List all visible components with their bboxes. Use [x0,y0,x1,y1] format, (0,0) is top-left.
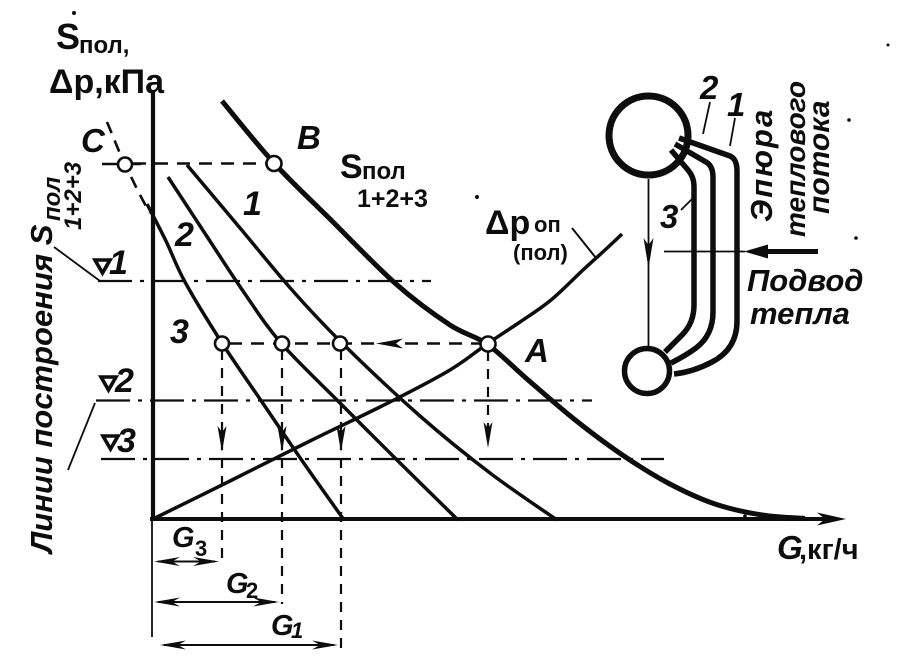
vertical dashed line below point 3 [221,350,223,564]
svg-text:1: 1 [727,86,745,123]
point on curve 2 [275,337,289,351]
nabla mark 2 [101,377,116,390]
dashed line C to B [133,162,267,165]
svg-text:Эпюра: Эпюра [744,108,779,222]
svg-text:,кг/ч: ,кг/ч [799,534,859,566]
leader for dp label [572,228,596,258]
leader from rotated label to line 1 [54,247,100,281]
svg-text:1: 1 [291,618,303,643]
dashed curve through C (extension of curve 3) [107,122,150,213]
thin heat line [664,251,745,253]
pipe 1 (outer) [674,138,737,374]
svg-text:G: G [172,522,195,554]
dimension G1 [164,644,334,646]
svg-text:Δp,кПа: Δp,кПа [49,63,165,101]
y-axis [151,90,155,520]
svg-text:тепла: тепла [750,296,850,331]
curve S_pol 1+2+3 (thick summary curve) [222,101,805,519]
point A [481,337,496,352]
svg-text:Линии построения S: Линии построения S [24,224,59,555]
svg-text:(пол): (пол) [513,240,568,265]
svg-text:1: 1 [109,244,128,282]
thick heat supply arrow [765,249,818,254]
rotated label: Linii postroeniya S pol [24,161,87,555]
point B [267,156,282,171]
down arrowhead at line 3 level [218,426,227,452]
x-axis arrowhead [817,513,846,526]
svg-text:пол: пол [362,158,406,185]
curve 2 [168,177,458,520]
scan noise dots [72,11,76,15]
nabla mark 3 [103,436,118,449]
svg-text:A: A [524,332,549,369]
leader from rotated label to line 2 [68,403,95,470]
svg-text:3: 3 [117,422,136,460]
pipe 3 (inner) [665,150,694,352]
radiator bottom circle [625,349,670,394]
curve 1 [187,165,557,520]
svg-text:Δp: Δp [485,204,530,242]
svg-text:2: 2 [174,216,194,254]
dashed horizontal through A and working points [229,342,481,345]
curve dp_op (system curve rising) [151,234,622,520]
dimension G2 [158,601,275,603]
rotated label: Epyura teplovogo potoka [744,81,836,237]
curve 3 [147,204,344,520]
svg-text:2: 2 [699,69,719,106]
x-axis [150,517,836,521]
y-axis extension below baseline [151,520,153,637]
nabla mark 1 [95,260,110,273]
flow line with down arrow [648,179,650,346]
svg-text:C: C [81,122,106,159]
svg-text:1+2+3: 1+2+3 [357,185,428,213]
dimension G3 [158,561,215,563]
dash-dot construction line 1 [98,280,431,282]
left arrowhead on dashed line [376,339,403,349]
dash-dot construction line 2 [96,399,592,401]
svg-text:1: 1 [243,185,262,223]
svg-text:3: 3 [660,198,678,235]
svg-text:1+2+3: 1+2+3 [60,161,87,230]
svg-text:потока: потока [803,100,836,214]
dash-dot construction line 3 [101,458,664,460]
svg-text:S: S [56,16,80,57]
svg-text:пол,: пол, [79,32,129,59]
svg-text:S: S [340,148,363,186]
vertical dashed line below point 1 [340,350,342,656]
point C [118,158,132,172]
point on curve 3 [215,337,229,351]
svg-text:3: 3 [170,313,189,351]
svg-text:Подвод: Подвод [747,263,863,298]
vertical dashed line below point 2 [281,350,283,604]
point on curve 1 [333,337,347,351]
svg-text:B: B [297,119,321,156]
svg-text:2: 2 [114,362,134,400]
svg-text:2: 2 [246,578,258,603]
vertical dashed line below A [487,351,489,436]
svg-text:оп: оп [534,212,561,237]
svg-text:3: 3 [195,536,207,561]
pipe 2 (middle) [671,144,713,363]
radiator top circle [609,96,688,175]
solid tick through C [102,163,141,166]
